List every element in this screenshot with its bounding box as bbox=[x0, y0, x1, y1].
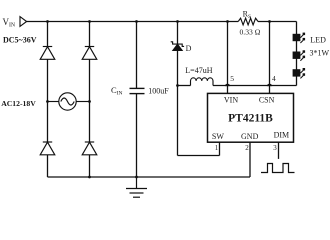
junction AC left bbox=[46, 100, 49, 103]
capacitor CIN plates bbox=[130, 88, 145, 93]
wire inductor line left lead bbox=[178, 85, 191, 87]
svg-text:CSN: CSN bbox=[259, 96, 275, 105]
junction top rail x136 bbox=[135, 20, 138, 23]
junction bottom rail x136 bbox=[135, 176, 138, 179]
junction top rail x47 bbox=[46, 20, 49, 23]
led LED1 bbox=[293, 33, 306, 43]
diode D3 (bridge bottom-left) bbox=[40, 142, 55, 155]
diode D1 (bridge top-left) bbox=[40, 47, 55, 60]
svg-text:3*1W: 3*1W bbox=[310, 49, 330, 58]
led LED3 bbox=[293, 68, 306, 78]
led LED2 bbox=[293, 50, 306, 60]
junction bottom rail x89 bbox=[88, 176, 91, 179]
svg-text:AC12-18V: AC12-18V bbox=[1, 99, 36, 108]
wire pin3 DIM stub bbox=[278, 142, 280, 159]
wire inductor line right lead to LED bottom bbox=[213, 85, 297, 87]
junction SW node bbox=[176, 84, 179, 87]
diode D (schottky freewheel) bbox=[171, 42, 184, 51]
wire right bridge leg bbox=[89, 22, 91, 178]
wire hop bump at pin5 crossing bbox=[225, 84, 230, 86]
wire pin4 from RS output to IC bbox=[269, 22, 271, 94]
svg-text:DC5~36V: DC5~36V bbox=[3, 36, 37, 45]
wire top rail right segment bbox=[258, 21, 297, 23]
wire CIN branch lower bbox=[136, 94, 138, 177]
wire CIN branch upper bbox=[136, 22, 138, 89]
svg-text:2: 2 bbox=[245, 144, 249, 152]
wire SW node vertical (diode D branch) bbox=[177, 22, 179, 156]
junction AC right bbox=[88, 100, 91, 103]
svg-text:0.33 Ω: 0.33 Ω bbox=[240, 28, 261, 37]
ground bbox=[126, 177, 147, 197]
wire pin5 from rail to IC bbox=[227, 22, 229, 94]
wire LED branch vertical bbox=[296, 22, 298, 86]
svg-text:4: 4 bbox=[272, 74, 276, 83]
resistor RS zigzag bbox=[238, 18, 258, 25]
svg-text:D: D bbox=[186, 44, 192, 53]
wire hop bump at pin4 crossing bbox=[267, 84, 272, 86]
svg-text:5: 5 bbox=[230, 74, 234, 83]
junction top rail x227 bbox=[226, 20, 229, 23]
AC source V1 bbox=[48, 93, 90, 110]
svg-text:GND: GND bbox=[241, 132, 259, 141]
wire top rail left segment bbox=[27, 21, 239, 23]
wire SW to pin1 bbox=[178, 142, 220, 156]
svg-text:L=47uH: L=47uH bbox=[185, 66, 212, 75]
diode D2 (bridge top-right) bbox=[82, 47, 97, 60]
junction top rail x177 bbox=[176, 20, 179, 23]
wire pin2 GND to bottom rail bbox=[249, 142, 251, 177]
junction top rail x89 bbox=[88, 20, 91, 23]
svg-text:VIN: VIN bbox=[224, 96, 238, 105]
svg-text:PT4211B: PT4211B bbox=[228, 112, 273, 124]
port VIN input triangle bbox=[20, 17, 27, 27]
junction top rail x269 bbox=[268, 20, 271, 23]
svg-text:DIM: DIM bbox=[274, 131, 290, 140]
svg-text:100uF: 100uF bbox=[148, 86, 169, 95]
PWM dimming waveform bbox=[261, 164, 295, 173]
IC U1 PT4211B box bbox=[208, 93, 294, 142]
diode D4 (bridge bottom-right) bbox=[82, 142, 97, 155]
wire bottom rail bbox=[48, 176, 251, 178]
svg-text:SW: SW bbox=[212, 132, 224, 141]
svg-text:1: 1 bbox=[215, 144, 219, 152]
wire left bridge leg bbox=[47, 22, 49, 178]
svg-text:LED: LED bbox=[310, 36, 326, 45]
inductor L coil bbox=[191, 78, 214, 86]
svg-text:3: 3 bbox=[273, 144, 277, 152]
